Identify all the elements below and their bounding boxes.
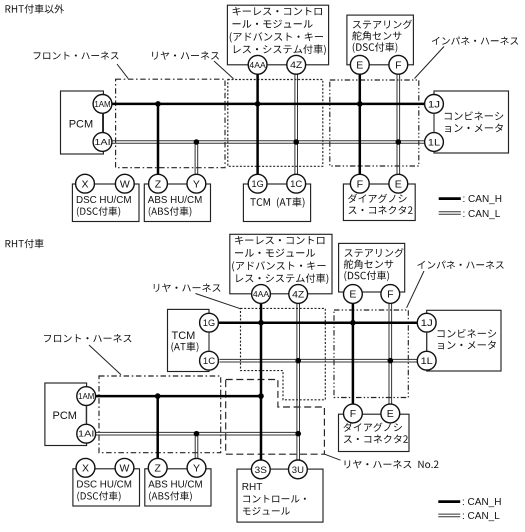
svg-text:DSC HU/CM: DSC HU/CM xyxy=(76,195,132,206)
pin Y of ABS HU/CM 2 xyxy=(187,458,206,477)
pin Z of ABS HU/CM 2 xyxy=(148,458,167,477)
wire CAN_L bus (double line) from PCM 1AI to meter 1L xyxy=(112,141,425,144)
svg-text:F: F xyxy=(395,60,401,72)
svg-text:1C: 1C xyxy=(290,179,302,190)
pin 1AI of PCM 2 xyxy=(77,424,96,443)
wire CAN_L drop to ABS pin Y xyxy=(195,142,198,174)
svg-text:W: W xyxy=(120,178,130,190)
instrument-panel harness boundary 2 (インパネ・ハーネス) dash-dot-dot box xyxy=(334,310,408,398)
pin 4AA of keyless module xyxy=(248,55,267,74)
svg-text:DSC HU/CM: DSC HU/CM xyxy=(76,480,132,491)
svg-text:3U: 3U xyxy=(292,465,304,476)
steering angle sensor box (ステアリング舵角センサ DSC付車) xyxy=(347,15,414,65)
svg-text:4Z: 4Z xyxy=(292,289,304,300)
instrument-panel harness boundary (インパネ・ハーネス) dash-dot-dot box xyxy=(330,80,419,166)
wire between meter pins 1J-1L (bottom) xyxy=(426,332,428,351)
svg-text:1AI: 1AI xyxy=(78,429,94,439)
svg-text:E: E xyxy=(395,178,402,190)
keyless control module box (キーレス・コントロール・モジュール) xyxy=(227,5,328,65)
svg-text:F: F xyxy=(350,408,356,420)
svg-text:1L: 1L xyxy=(428,137,440,148)
pin F of diagnostic connector 2 xyxy=(350,174,369,193)
TCM box 2 (AT車) xyxy=(168,309,210,371)
svg-text:1G: 1G xyxy=(252,179,264,190)
pin 1AM of PCM xyxy=(93,95,112,114)
RHT control module box (RHTコントロール・モジュール) xyxy=(237,469,323,522)
svg-text:E: E xyxy=(387,408,394,420)
combination meter box (コンビネーション・メータ) xyxy=(434,91,509,153)
pin 4Z of keyless module xyxy=(287,55,306,74)
svg-text:PCM: PCM xyxy=(69,119,93,131)
keyless control module box 2 xyxy=(230,234,332,293)
label リヤ・ハーネス No.2 with leader line xyxy=(345,460,439,468)
title: RHT付車以外 (non-RHT vehicles) xyxy=(6,4,65,13)
svg-text:W: W xyxy=(120,463,130,475)
legend: double line = CAN_L xyxy=(439,212,461,215)
pin 1C of TCM xyxy=(287,174,306,193)
svg-text:X: X xyxy=(81,178,88,190)
front harness boundary (フロント・ハーネス) dash-dot box xyxy=(116,79,225,168)
steering angle sensor box 2 xyxy=(339,243,405,292)
svg-text:RHT: RHT xyxy=(242,482,263,493)
pin F of steering angle sensor 2 xyxy=(381,285,400,304)
ABS HU/CM box (ABS付車) xyxy=(144,184,210,222)
svg-text:: CAN_L: : CAN_L xyxy=(462,511,500,522)
svg-text:PCM: PCM xyxy=(53,410,77,422)
diagnostic connector 2 box (ダイアグノシス・コネクタ2) xyxy=(343,184,415,221)
title: RHT付車 (RHT vehicles) xyxy=(6,239,44,248)
svg-text:4Z: 4Z xyxy=(290,60,302,71)
svg-text:1G: 1G xyxy=(203,318,215,329)
svg-text:1AI: 1AI xyxy=(94,137,110,147)
PCM box 2 xyxy=(45,383,87,446)
combination meter box 2 xyxy=(427,310,501,371)
wire CAN_L steering F down to diagnostic connector E (bottom) xyxy=(389,304,392,404)
DSC HU/CM box (DSC付車) xyxy=(72,184,139,222)
wire CAN_H drop to ABS pin Z xyxy=(157,104,160,174)
pin 1AI of PCM xyxy=(93,133,112,152)
rear harness No.2 boundary (リヤ・ハーネス No.2) long-dash stepped box xyxy=(226,380,325,455)
svg-text:Z: Z xyxy=(155,178,162,190)
wire CAN_L drop to ABS pin Y (bottom) xyxy=(195,434,198,459)
wire CAN_H steering E down to diagnostic connector F (bottom) xyxy=(352,304,355,404)
label インパネ・ハーネス 2 with leader line xyxy=(417,261,503,269)
junction dots on CAN_L bus xyxy=(194,139,200,145)
svg-text:Y: Y xyxy=(193,463,200,475)
wire CAN_H drop to ABS pin Z (bottom) xyxy=(156,396,159,458)
pin F of diagnostic connector 2 (bottom) xyxy=(344,404,363,423)
svg-text:1J: 1J xyxy=(428,99,440,110)
label インパネ・ハーネス with leader line xyxy=(432,37,518,45)
wire CAN_H branch TCM 1G to meter 1J xyxy=(218,321,417,324)
svg-text:F: F xyxy=(357,178,363,190)
svg-text:: CAN_H: : CAN_H xyxy=(462,497,501,508)
DSC HU/CM box 2 xyxy=(73,469,140,506)
pin 3S of RHT control module xyxy=(251,460,270,479)
pin 1L of combination meter xyxy=(425,133,444,152)
svg-text:: CAN_L: : CAN_L xyxy=(463,209,501,220)
svg-text:ABS HU/CM: ABS HU/CM xyxy=(148,480,202,491)
legend 2: thick line = CAN_H xyxy=(438,500,460,503)
wire CAN_H bus (thick) from PCM 1AM to meter 1J xyxy=(112,103,425,106)
svg-text:3S: 3S xyxy=(255,465,267,476)
svg-text:F: F xyxy=(387,289,393,301)
svg-text:Z: Z xyxy=(154,463,161,475)
wire CAN_H bus 2 from PCM 1AM to keyless/RHT column xyxy=(96,395,261,398)
svg-text:1L: 1L xyxy=(421,356,433,367)
svg-text:1J: 1J xyxy=(421,318,433,329)
svg-text:: CAN_H: : CAN_H xyxy=(463,194,502,205)
pin Y of ABS HU/CM xyxy=(187,174,206,193)
junction dots on CAN_L wires (bottom) xyxy=(194,431,200,437)
pin E of diagnostic connector 2 (bottom) xyxy=(381,404,400,423)
legend 2: double line = CAN_L xyxy=(438,514,460,517)
diagnostic connector 2 box (bottom) xyxy=(339,414,410,451)
label フロント・ハーネス 2 with leader line xyxy=(44,334,132,342)
svg-text:1AM: 1AM xyxy=(78,391,94,401)
pin 4Z of keyless module 2 xyxy=(289,285,308,304)
wire CAN_L column keyless 4Z to RHT 3U xyxy=(297,304,300,461)
TCM box (AT車) xyxy=(243,184,310,222)
svg-text:Y: Y xyxy=(193,178,200,190)
pin 1AM of PCM 2 xyxy=(77,387,96,406)
wire between PCM pins 1AM-1AI (bottom) xyxy=(85,406,87,425)
pin W of DSC HU/CM 2 xyxy=(115,458,134,477)
wire CAN_H column keyless 4AA to RHT 3S xyxy=(260,304,263,461)
svg-text:ABS HU/CM: ABS HU/CM xyxy=(148,195,202,206)
label フロント・ハーネス with leader line xyxy=(34,51,119,59)
wire CAN_H keyless 4AA down to TCM 1G xyxy=(256,74,259,174)
svg-text:TCM: TCM xyxy=(172,330,196,342)
svg-text:X: X xyxy=(82,463,89,475)
pin 1J of combination meter xyxy=(425,95,444,114)
pin E of steering angle sensor 2 xyxy=(344,285,363,304)
wire CAN_L bus 2 from PCM 1AI to keyless/RHT column xyxy=(96,432,299,435)
PCM box xyxy=(61,91,104,154)
junction dots on CAN_H bus xyxy=(155,101,161,107)
legend: thick line = CAN_H xyxy=(439,197,461,200)
pin 1J of combination meter 2 xyxy=(417,313,436,332)
svg-text:E: E xyxy=(349,289,356,301)
wire CAN_H steering E down to diagnostic connector F xyxy=(359,74,362,174)
ABS HU/CM box 2 xyxy=(145,469,211,506)
pin 1G of TCM xyxy=(248,174,267,193)
pin 4AA of keyless module 2 xyxy=(252,285,271,304)
rear harness boundary 2 (リヤ・ハーネス) dotted stepped box xyxy=(241,308,326,399)
pin Z of ABS HU/CM xyxy=(149,174,168,193)
svg-text:1C: 1C xyxy=(203,356,215,367)
pin 1C of TCM 2 xyxy=(200,351,219,370)
pin W of DSC HU/CM xyxy=(115,174,134,193)
wire between TCM pins 1G-1C xyxy=(208,332,210,351)
svg-text:1AM: 1AM xyxy=(94,99,110,109)
pin E of steering angle sensor xyxy=(350,55,369,74)
pin 3U of RHT control module xyxy=(289,460,308,479)
wire between meter pins 1J-1L xyxy=(433,113,435,132)
label リヤ・ハーネス 2 with leader line xyxy=(154,284,221,292)
pin 1L of combination meter 2 xyxy=(417,351,436,370)
rear harness boundary (リヤ・ハーネス) dotted box xyxy=(228,80,323,167)
svg-text:4AA: 4AA xyxy=(253,289,270,299)
wire CAN_L steering F down to diagnostic connector E xyxy=(397,74,400,174)
junction dots on CAN_H wires (bottom) xyxy=(155,393,161,399)
pin F of steering angle sensor xyxy=(389,55,408,74)
pin E of diagnostic connector 2 xyxy=(389,174,408,193)
pin X of DSC HU/CM xyxy=(76,174,95,193)
wire CAN_L branch TCM 1C to meter 1L xyxy=(219,359,417,362)
wire CAN_L keyless 4Z down to TCM 1C xyxy=(295,74,298,174)
front harness boundary 2 (フロント・ハーネス) dash-dot box xyxy=(99,376,221,453)
svg-text:4AA: 4AA xyxy=(249,60,266,70)
label リヤ・ハーネス with leader line xyxy=(152,51,219,59)
wire between PCM pins 1AM-1AI xyxy=(102,113,104,132)
svg-text:E: E xyxy=(356,60,363,72)
pin X of DSC HU/CM 2 xyxy=(76,458,95,477)
pin 1G of TCM 2 xyxy=(200,313,219,332)
